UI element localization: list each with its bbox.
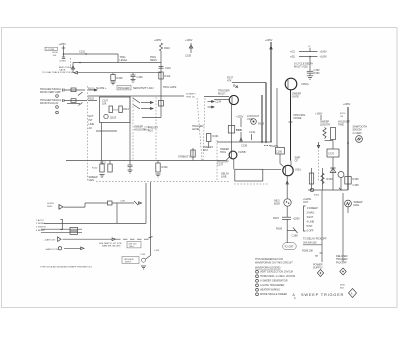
svg-text:+(D): +(D) [290, 55, 295, 59]
capacitor C166 [286, 206, 288, 217]
svg-text:VIA SW 160: VIA SW 160 [303, 241, 317, 245]
svg-text:B159: B159 [274, 202, 280, 206]
svg-text:+SAWTOOTH: +SAWTOOTH [45, 248, 59, 251]
svg-text:STABILITY: STABILITY [178, 155, 191, 159]
svg-text:R152: R152 [314, 71, 321, 75]
svg-text:6 OFF: 6 OFF [307, 229, 315, 233]
wire [101, 123, 103, 161]
svg-text:VERT DEFLECTION 10V/CM: VERT DEFLECTION 10V/CM [260, 271, 293, 274]
capacitor C181 [108, 201, 113, 205]
svg-text:+100V: +100V [315, 112, 323, 116]
svg-text:LEVEL: LEVEL [120, 58, 128, 62]
svg-text:TRIGGER: TRIGGER [124, 259, 134, 261]
svg-text:+100V: +100V [185, 38, 193, 42]
svg-text:HORIZ DEFL 1 mSEC, 20V/CM: HORIZ DEFL 1 mSEC, 20V/CM [260, 275, 295, 278]
waveform legend circled numbers [256, 270, 259, 295]
svg-text:C169: C169 [154, 250, 160, 252]
svg-text:WAVEFORM LEGEND: WAVEFORM LEGEND [255, 266, 281, 269]
svg-text:R167: R167 [273, 216, 280, 220]
svg-text:R165: R165 [353, 177, 360, 181]
wire [116, 204, 118, 224]
svg-text:J CONN: J CONN [46, 49, 55, 51]
capacitor C102 [62, 56, 65, 58]
svg-text:EARLIER VALUES: EARLIER VALUES [102, 245, 121, 248]
svg-text:C168: C168 [292, 234, 299, 238]
tube V162B [338, 172, 344, 178]
svg-text:C181: C181 [120, 201, 126, 203]
wire L bus [44, 222, 146, 224]
wire plate V135A [270, 42, 272, 142]
wire junction [286, 219, 288, 243]
svg-text:TO DELAY PICKOFF: TO DELAY PICKOFF [303, 237, 327, 241]
wire plate coupling [231, 105, 233, 152]
svg-text:WAVEFORMS ON THIS CIRCUIT: WAVEFORMS ON THIS CIRCUIT [255, 261, 293, 264]
svg-text:SENS: SENS [150, 58, 157, 62]
svg-text:C110: C110 [165, 66, 171, 70]
svg-text:R111: R111 [113, 110, 119, 112]
svg-text:R168 10K: R168 10K [302, 249, 313, 253]
miller capacitor block [276, 148, 285, 155]
svg-text:OUT: OUT [303, 200, 309, 204]
tube V161 [283, 165, 293, 175]
wire [88, 95, 131, 97]
wire cathode to delay line [233, 159, 235, 169]
svg-text:GEN: GEN [89, 178, 95, 182]
wire [64, 53, 119, 55]
svg-text:SCHMITT: SCHMITT [186, 94, 196, 96]
svg-text:EXT: EXT [89, 114, 94, 118]
switch contact arrows second wafer [208, 101, 215, 103]
wire screen [276, 88, 278, 147]
svg-text:A GATE TRIGGERED: A GATE TRIGGERED [260, 284, 285, 287]
svg-text:C165: C165 [353, 183, 360, 187]
amplifier block box [100, 97, 131, 123]
svg-text:MULTI: MULTI [218, 92, 226, 96]
svg-text:MAG: MAG [354, 203, 360, 207]
wire [129, 96, 131, 161]
trigger selector label box [117, 86, 131, 90]
resistor R183 row [41, 228, 82, 230]
wire [160, 51, 162, 96]
svg-text:10K: 10K [53, 55, 57, 57]
svg-text:LEVEL: LEVEL [192, 127, 200, 131]
svg-text:MODE SINGLE SWEEP: MODE SINGLE SWEEP [260, 293, 287, 296]
svg-text:B162: B162 [314, 195, 320, 197]
svg-text:R131: R131 [213, 134, 220, 138]
switch contact arrows [133, 98, 140, 103]
svg-text:10K: 10K [102, 102, 107, 106]
svg-text:R126: R126 [162, 165, 169, 169]
svg-text:+(C): +(C) [290, 50, 295, 54]
resistor R165 [345, 177, 351, 185]
resistor R113 [119, 106, 123, 113]
wire cathode [261, 95, 263, 142]
wire sweep gate [290, 90, 292, 161]
resistor R110 [160, 43, 163, 51]
svg-text:C134: C134 [215, 100, 222, 104]
svg-text:+GATE 20V: +GATE 20V [44, 238, 56, 241]
svg-text:FROM VERT AMP: FROM VERT AMP [40, 90, 61, 94]
svg-text:MULTI V152: MULTI V152 [294, 65, 308, 69]
svg-text:4 RESET: 4 RESET [36, 230, 46, 232]
wire [321, 191, 323, 263]
resistor R131 [207, 134, 211, 142]
svg-text:(LINE): (LINE) [60, 60, 67, 62]
svg-text:V161: V161 [295, 168, 301, 172]
svg-text:R140: R140 [236, 128, 243, 132]
potentiometer wiper [318, 142, 320, 148]
svg-text:V135B: V135B [238, 150, 246, 154]
svg-text:C170: C170 [328, 152, 335, 156]
svg-text:TRIGGER: TRIGGER [118, 86, 130, 90]
svg-text:CALIB: CALIB [59, 69, 66, 72]
tube V135A [236, 86, 238, 88]
svg-text:SEE PARTS LIST FOR: SEE PARTS LIST FOR [99, 242, 122, 245]
svg-text:1M: 1M [340, 116, 343, 118]
svg-text:TYPE 317 A 4B0 DELAYING SW: TYPE 317 A 4B0 DELAYING SWEEP TRIGGER CK… [40, 265, 92, 268]
svg-text:TP: TP [315, 254, 319, 258]
chassis dashed boundary [96, 181, 229, 183]
diode D180 [59, 205, 63, 210]
svg-text:TO DUAL TRACE SYNC PULSE: TO DUAL TRACE SYNC PULSE [42, 71, 74, 74]
connector J101 box [45, 47, 57, 50]
svg-text:R145: R145 [258, 122, 265, 126]
resistor R121 [101, 161, 103, 165]
svg-text:TO CRT: TO CRT [284, 245, 294, 249]
resistor R171 [323, 128, 326, 139]
wire [96, 130, 117, 132]
wire switch wafer [160, 96, 162, 118]
svg-text:4 LINE: 4 LINE [307, 220, 315, 224]
svg-text:A SWEEP GENERATOR: A SWEEP GENERATOR [260, 280, 288, 283]
resistor R112 [159, 72, 163, 79]
svg-text:LENGTH: LENGTH [320, 123, 330, 127]
svg-text:R169: R169 [276, 227, 283, 231]
tube V152A [285, 78, 297, 90]
main cathode bus [66, 160, 226, 162]
legend notes block [255, 258, 296, 300]
svg-text:3 SINGLE: 3 SINGLE [36, 227, 46, 229]
svg-text:R113: R113 [123, 107, 129, 111]
lamp B167 [345, 200, 352, 207]
resistor R111 [109, 106, 113, 113]
wire [117, 54, 119, 63]
diode D102 [72, 63, 74, 73]
resistor R162 [311, 168, 313, 190]
ganging dashed line [216, 140, 218, 181]
svg-text:LINE: LINE [89, 122, 95, 126]
capacitor C150 cluster [309, 57, 311, 71]
svg-text:AC: AC [89, 126, 93, 130]
ganging dashed lines [132, 97, 134, 160]
svg-text:INPUT: INPUT [125, 262, 132, 264]
svg-text:+225V: +225V [154, 38, 162, 42]
resistor R181 [134, 201, 138, 205]
capacitor C110 [159, 66, 164, 68]
svg-text:47K: 47K [227, 79, 232, 83]
svg-text:+225V: +225V [293, 217, 301, 221]
wire [64, 206, 86, 208]
svg-text:PICKOFF: PICKOFF [336, 260, 347, 264]
svg-text:C115: C115 [144, 126, 150, 128]
transistor Q103 [104, 114, 108, 118]
svg-text:C169: C169 [140, 254, 146, 256]
wire bus [308, 189, 348, 191]
svg-text:V152A: V152A [301, 82, 309, 86]
resistor R122 [109, 161, 111, 165]
block holdoff cap [327, 149, 339, 157]
svg-text:R102: R102 [88, 97, 95, 101]
neon B159 [284, 199, 291, 206]
ganging dashed line [87, 86, 89, 182]
svg-text:+100V: +100V [320, 50, 328, 54]
resistor R184 row [41, 232, 82, 234]
svg-text:TRIG GATE: TRIG GATE [163, 85, 177, 89]
svg-text:+100V: +100V [320, 55, 328, 59]
svg-text:SLOPE +: SLOPE + [96, 86, 107, 90]
svg-text:SW 160: SW 160 [129, 243, 138, 245]
svg-text:R106: R106 [117, 76, 124, 80]
trigger input connector [150, 182, 152, 256]
svg-text:+225V: +225V [59, 42, 67, 46]
svg-text:GATE: GATE [292, 95, 299, 99]
svg-text:R170: R170 [340, 113, 346, 115]
svg-text:1 SWEEP: 1 SWEEP [307, 206, 318, 210]
capacitor C106 [132, 73, 134, 75]
resistor R172 [331, 128, 336, 140]
wire cross coupling [217, 141, 272, 143]
svg-text:C137: C137 [217, 163, 224, 167]
svg-text:1 AUTO: 1 AUTO [36, 219, 44, 222]
transistor Q100 mark [78, 92, 83, 96]
svg-text:TRIG Q5: TRIG Q5 [186, 96, 196, 98]
capacitor C124 [129, 161, 131, 166]
diode V162 [330, 168, 336, 173]
svg-text:R163: R163 [327, 177, 334, 181]
resistor R163 [322, 168, 324, 190]
svg-text:DIODE: DIODE [294, 116, 302, 120]
svg-text:FROM PLUG-IN: FROM PLUG-IN [40, 101, 58, 105]
svg-text:AMPLITUDE: AMPLITUDE [59, 66, 72, 69]
wire [73, 62, 161, 64]
resistor R126 [157, 161, 159, 164]
svg-text:2 NORM: 2 NORM [36, 223, 45, 225]
svg-text:R120: R120 [92, 168, 98, 170]
svg-text:CF: CF [295, 159, 299, 163]
svg-text:C160: C160 [276, 149, 283, 153]
wire main right [347, 107, 349, 190]
svg-text:2 mSEC: 2 mSEC [353, 131, 362, 135]
svg-text:+225V: +225V [236, 115, 244, 119]
svg-text:SENSITIVITY ADJ: SENSITIVITY ADJ [133, 86, 154, 90]
svg-text:R121: R121 [100, 161, 107, 165]
svg-text:ADJ: ADJ [203, 148, 208, 152]
svg-text:3 EXT: 3 EXT [307, 215, 314, 219]
CRT terminal oval [283, 243, 297, 250]
svg-text:MOD: MOD [340, 285, 346, 287]
svg-text:C142: C142 [249, 130, 256, 134]
svg-text:SUPPLY: SUPPLY [313, 266, 323, 270]
wire [63, 46, 65, 55]
svg-text:DEFL: DEFL [47, 206, 53, 208]
svg-text:C139: C139 [241, 144, 248, 148]
svg-text:R110: R110 [164, 46, 170, 50]
resistor R106 [112, 73, 114, 75]
svg-text:INT: INT [89, 118, 93, 122]
svg-text:C106: C106 [137, 75, 144, 79]
svg-text:+225V: +225V [265, 38, 273, 42]
svg-text:R112: R112 [165, 74, 171, 78]
dashed gang [318, 150, 320, 182]
dashed stub [70, 58, 72, 68]
svg-text:TRIG: TRIG [129, 246, 135, 248]
svg-text:HORIZ: HORIZ [47, 203, 54, 205]
svg-text:HEATER WIRING: HEATER WIRING [260, 289, 280, 292]
svg-text:+225V: +225V [343, 102, 351, 106]
svg-text:SWEEP TRIGGER: SWEEP TRIGGER [301, 292, 344, 297]
wire [342, 193, 344, 262]
svg-text:Q103: Q103 [110, 116, 117, 120]
svg-text:C105: C105 [185, 54, 192, 58]
svg-text:2 MAG: 2 MAG [307, 211, 315, 215]
svg-text:TIME: TIME [338, 123, 344, 127]
svg-text:LINE: LINE [221, 175, 227, 179]
svg-text:R115: R115 [144, 130, 150, 132]
resistor R100 [71, 88, 76, 92]
svg-text:5 INT: 5 INT [307, 224, 314, 228]
wire CRT branch [286, 176, 288, 199]
svg-text:C101: C101 [79, 50, 86, 54]
svg-text:TRIG: TRIG [220, 150, 226, 154]
